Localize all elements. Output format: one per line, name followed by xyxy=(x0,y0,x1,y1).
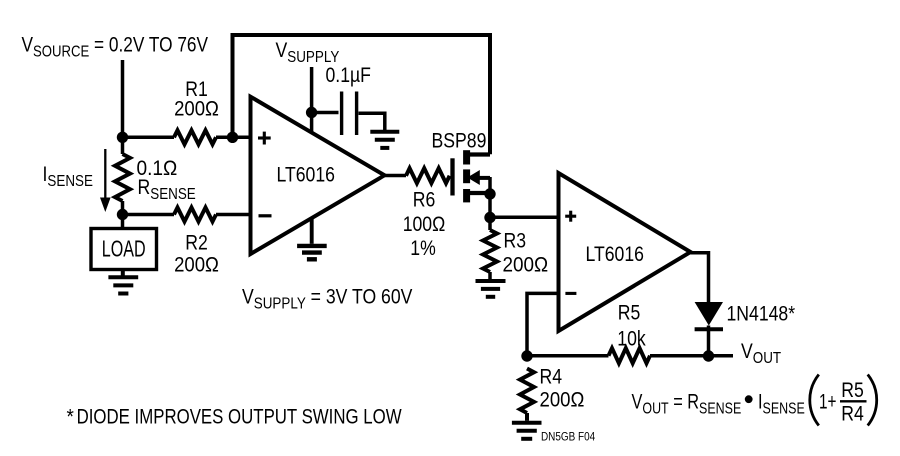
label R5 xyxy=(618,301,641,325)
svg-text:R3: R3 xyxy=(504,229,527,253)
svg-text:DIODE IMPROVES OUTPUT SWING LO: DIODE IMPROVES OUTPUT SWING LOW xyxy=(77,406,402,429)
wire op-amp U2 output xyxy=(691,253,709,303)
formula ISENSE term xyxy=(758,390,805,418)
wire op-amp U1 ground pin xyxy=(310,218,314,244)
label R2 value xyxy=(174,253,219,276)
resistor R4 xyxy=(520,369,534,421)
svg-text:200Ω: 200Ω xyxy=(174,97,219,120)
wire to op-amp U2 + xyxy=(490,216,559,220)
load LOAD box xyxy=(91,229,157,270)
formula fraction bar xyxy=(840,400,867,402)
node junction MOSFET source/body xyxy=(484,188,495,199)
ground op-amp U1 xyxy=(297,246,327,259)
arrow ISENSE current direction xyxy=(100,149,111,212)
resistor R1 xyxy=(123,130,233,144)
wire top rail to MOSFET drain xyxy=(233,35,491,154)
label R6 tolerance xyxy=(410,237,435,261)
formula fraction R4 denominator xyxy=(841,402,864,426)
label VSUPPLY pin xyxy=(276,39,340,67)
wire to LOAD xyxy=(121,215,125,229)
wire op-amp U2 - feedback xyxy=(527,293,559,356)
ground under LOAD xyxy=(108,277,138,293)
formula left parenthesis xyxy=(810,375,819,426)
formula VOUT equation xyxy=(632,390,742,418)
label R3 value xyxy=(503,254,549,277)
wire VSUPPLY pin xyxy=(310,67,314,132)
transistor Q1 BSP89 MOSFET xyxy=(453,150,491,230)
label ISENSE xyxy=(43,163,94,191)
node junction RSENSE/R2/LOAD xyxy=(117,209,128,220)
svg-text:0.1µF: 0.1µF xyxy=(326,64,372,88)
svg-text:100Ω: 100Ω xyxy=(403,213,446,237)
node VOUT label xyxy=(741,340,781,368)
label DN5GB F04 xyxy=(541,431,595,444)
label R3 xyxy=(504,229,527,253)
svg-text:200Ω: 200Ω xyxy=(503,254,549,277)
ground R4 xyxy=(512,423,542,439)
svg-text:*: * xyxy=(67,406,75,429)
label RSENSE xyxy=(138,176,196,204)
label BSP89 xyxy=(432,129,487,153)
op-amp U1 LT6016 xyxy=(251,97,385,254)
label C1 value 0.1uF xyxy=(326,64,372,88)
resistor R5 and VOUT wire xyxy=(527,348,733,363)
op-amp U2 LT6016 xyxy=(559,173,691,331)
label R4 xyxy=(540,365,563,389)
svg-text:R5: R5 xyxy=(618,301,641,325)
svg-text:LT6016: LT6016 xyxy=(277,163,335,187)
label R5 value xyxy=(617,327,646,351)
svg-text:1+: 1+ xyxy=(819,389,836,413)
svg-text:R2: R2 xyxy=(185,231,208,255)
resistor RSENSE xyxy=(115,137,130,214)
diode D1 1N4148 xyxy=(695,302,723,356)
label VSUPPLY range xyxy=(242,285,412,313)
note diode footnote xyxy=(67,406,402,429)
svg-text:R6: R6 xyxy=(413,188,436,212)
resistor R6 xyxy=(385,168,450,183)
resistor R2 xyxy=(123,208,252,222)
svg-text:R4: R4 xyxy=(841,402,864,426)
svg-text:1%: 1% xyxy=(410,237,435,261)
node junction source/R3/op-amp2 xyxy=(484,212,495,223)
resistor R3 xyxy=(483,230,497,279)
svg-text:R4: R4 xyxy=(540,365,563,389)
ground R3 xyxy=(476,281,506,297)
label R6 value xyxy=(403,213,446,237)
ground capacitor xyxy=(370,132,399,148)
svg-text:200Ω: 200Ω xyxy=(540,388,585,411)
label RSENSE value 0.1ohm xyxy=(137,157,178,180)
formula right parenthesis xyxy=(868,375,877,426)
label R1 value xyxy=(174,97,219,120)
svg-text:LOAD: LOAD xyxy=(102,237,146,262)
svg-text:1N4148*: 1N4148* xyxy=(727,302,796,326)
node junction R1/op-amp/top rail xyxy=(227,132,238,143)
label R4 value xyxy=(540,388,585,411)
node VSOURCE label xyxy=(22,34,209,61)
label R6 xyxy=(413,188,436,212)
svg-text:200Ω: 200Ω xyxy=(174,253,219,276)
node junction diode/VOUT xyxy=(703,350,714,361)
label R1 xyxy=(185,78,208,102)
svg-text:DN5GB F04: DN5GB F04 xyxy=(541,431,595,444)
wire LOAD to ground xyxy=(121,270,125,276)
svg-text:10k: 10k xyxy=(617,327,646,351)
node junction VSUPPLY/cap xyxy=(306,107,317,118)
node junction VSOURCE/R1/RSENSE xyxy=(117,132,128,143)
formula 1+ term xyxy=(819,389,836,413)
label R2 xyxy=(185,231,208,255)
formula fraction R5 numerator xyxy=(841,379,864,403)
label 1N4148 xyxy=(727,302,796,326)
wire VSOURCE vertical xyxy=(121,60,125,137)
svg-text:BSP89: BSP89 xyxy=(432,129,487,153)
svg-text:R5: R5 xyxy=(841,379,864,403)
wire R1 to op-amp + xyxy=(233,136,252,140)
svg-text:LT6016: LT6016 xyxy=(586,243,644,267)
capacitor C1 0.1uF xyxy=(312,92,385,136)
node junction R4/R5/feedback xyxy=(521,350,532,361)
formula bullet operator xyxy=(745,395,753,403)
